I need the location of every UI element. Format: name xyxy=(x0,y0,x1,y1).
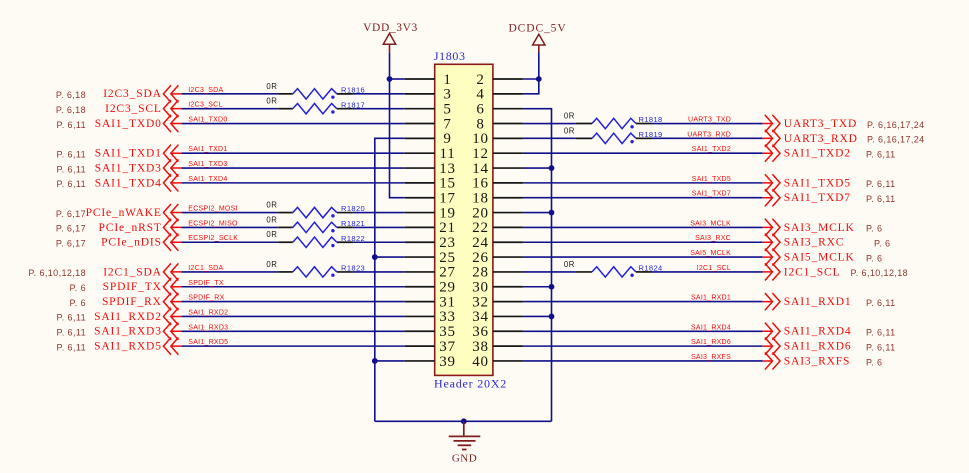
pin leads xyxy=(576,137,592,139)
svg-text:R1820: R1820 xyxy=(341,204,365,213)
wire I2C1_SDA (arrow to R1823) xyxy=(181,271,278,273)
svg-text:R1821: R1821 xyxy=(341,219,365,228)
svg-text:UART3_RXD: UART3_RXD xyxy=(784,133,858,145)
svg-text:PCIe_nRST: PCIe_nRST xyxy=(99,222,162,234)
svg-text:I2C3_SCL: I2C3_SCL xyxy=(188,102,222,109)
svg-text:UART3_TXD: UART3_TXD xyxy=(784,118,857,130)
pin 5 xyxy=(405,101,452,117)
pin 19 xyxy=(405,205,456,221)
svg-text:P. 6,17: P. 6,17 xyxy=(56,209,86,219)
zigzag body xyxy=(293,222,337,232)
svg-text:6: 6 xyxy=(476,101,484,117)
wire SAI3_RXFS xyxy=(523,360,763,362)
svg-text:P. 6: P. 6 xyxy=(866,224,882,234)
off-page connector SAI1_RXD5 (left) xyxy=(163,338,181,355)
off-page connector SAI1_TXD2 (right) xyxy=(763,145,780,162)
svg-text:P. 6,16,17,24: P. 6,16,17,24 xyxy=(867,120,925,130)
wire R1817 to pin 5 xyxy=(353,108,405,110)
off-page connector SAI3_MCLK (right) xyxy=(763,219,780,236)
svg-text:11: 11 xyxy=(439,146,455,162)
zigzag body xyxy=(293,207,337,217)
svg-text:P. 6: P. 6 xyxy=(866,253,882,263)
svg-text:P. 6,11: P. 6,11 xyxy=(57,342,87,352)
svg-text:P. 6: P. 6 xyxy=(70,283,86,293)
connector J1803 body xyxy=(435,64,493,375)
svg-text:17: 17 xyxy=(439,191,456,207)
pin 3 xyxy=(405,87,452,103)
wire SAI1_RXD3 xyxy=(181,330,404,332)
svg-text:SAI3_MCLK: SAI3_MCLK xyxy=(690,220,731,227)
svg-text:GND: GND xyxy=(452,453,477,465)
pin 37 xyxy=(405,339,456,355)
svg-text:0R: 0R xyxy=(266,97,277,106)
wire R1816 to pin 3 xyxy=(353,93,405,95)
svg-text:P. 6,11: P. 6,11 xyxy=(57,120,87,130)
wire pin 20 to GND vertical xyxy=(523,212,552,214)
svg-text:I2C1_SDA: I2C1_SDA xyxy=(188,265,223,272)
svg-text:13: 13 xyxy=(439,161,456,177)
resistor R1823 0R xyxy=(266,260,365,277)
pin 24 xyxy=(472,235,523,251)
svg-text:ECSPI2_MOSI: ECSPI2_MOSI xyxy=(188,206,237,213)
pin 1 marker dot xyxy=(630,125,633,128)
wire SAI1_RXD1 xyxy=(523,301,763,303)
svg-text:SAI1_TXD5: SAI1_TXD5 xyxy=(784,177,851,189)
pin leads xyxy=(576,123,592,125)
svg-text:SAI1_TXD1: SAI1_TXD1 xyxy=(188,146,227,153)
pin 28 xyxy=(472,265,523,281)
svg-text:8: 8 xyxy=(476,116,484,132)
off-page connector PCIe_nWAKE (left) xyxy=(163,204,181,221)
svg-text:P. 6,11: P. 6,11 xyxy=(57,313,87,323)
svg-text:ECSPI2_SCLK: ECSPI2_SCLK xyxy=(188,235,238,242)
pin 36 xyxy=(472,324,523,340)
wire pin 39 to GND vertical xyxy=(375,360,405,362)
power symbol DCDC_5V xyxy=(508,23,566,53)
junction VDD_3V3 / pin 1 xyxy=(387,76,393,82)
pin 20 xyxy=(472,205,523,221)
svg-text:SAI1_RXD3: SAI1_RXD3 xyxy=(94,326,162,338)
svg-text:P. 6,11: P. 6,11 xyxy=(57,179,87,189)
svg-text:R1819: R1819 xyxy=(639,130,663,139)
wire SAI1_TXD2 xyxy=(523,152,763,154)
svg-text:28: 28 xyxy=(472,265,489,281)
pin 6 xyxy=(476,101,523,117)
svg-text:0R: 0R xyxy=(564,260,575,269)
junction pin 14 / GND xyxy=(549,165,555,171)
pin 1 marker dot xyxy=(630,140,633,143)
svg-text:27: 27 xyxy=(439,265,456,281)
svg-text:SAI1_RXD2: SAI1_RXD2 xyxy=(188,309,228,316)
svg-text:20: 20 xyxy=(472,205,489,221)
wire SAI1_TXD4 xyxy=(181,182,404,184)
svg-text:30: 30 xyxy=(472,280,489,296)
pin 1 marker dot xyxy=(630,274,633,277)
zigzag body xyxy=(592,267,636,277)
pin 1 marker dot xyxy=(331,110,334,113)
pin 1 marker dot xyxy=(331,229,334,232)
off-page connector UART3_TXD (right) xyxy=(763,115,780,132)
pin leads xyxy=(278,241,293,243)
pin 31 xyxy=(405,294,456,310)
svg-text:SAI5_MCLK: SAI5_MCLK xyxy=(784,251,855,263)
svg-text:P. 6: P. 6 xyxy=(874,239,890,249)
svg-text:0R: 0R xyxy=(564,112,575,121)
off-page connector SAI1_RXD3 (left) xyxy=(163,323,181,340)
svg-text:SAI1_TXD5: SAI1_TXD5 xyxy=(692,176,731,183)
svg-text:UART3_RXD: UART3_RXD xyxy=(687,131,731,138)
svg-text:P. 6,11: P. 6,11 xyxy=(57,328,87,338)
svg-text:P. 6,11: P. 6,11 xyxy=(866,328,896,338)
svg-text:P. 6,11: P. 6,11 xyxy=(866,150,896,160)
svg-text:P. 6,11: P. 6,11 xyxy=(57,150,87,160)
svg-text:9: 9 xyxy=(443,131,451,147)
svg-text:SAI1_TXD4: SAI1_TXD4 xyxy=(95,177,162,189)
pin 27 xyxy=(405,265,456,281)
off-page connector SAI1_RXD4 (right) xyxy=(763,323,780,340)
pin 1 marker dot xyxy=(331,274,334,277)
svg-text:38: 38 xyxy=(472,339,489,355)
pin 35 xyxy=(405,324,456,340)
off-page connector SAI1_RXD6 (right) xyxy=(763,338,780,355)
svg-text:40: 40 xyxy=(472,354,489,370)
svg-text:12: 12 xyxy=(472,146,489,162)
svg-text:VDD_3V3: VDD_3V3 xyxy=(363,22,418,34)
svg-text:R1822: R1822 xyxy=(341,234,365,243)
wire pin 34 to GND vertical xyxy=(523,315,552,317)
svg-text:2: 2 xyxy=(476,72,484,88)
off-page connector SAI3_RXC (right) xyxy=(763,234,780,251)
svg-text:0R: 0R xyxy=(266,215,277,224)
svg-text:UART3_TXD: UART3_TXD xyxy=(688,117,731,124)
svg-text:SAI1_RXD5: SAI1_RXD5 xyxy=(94,341,162,353)
wire pin 28 to R1824 xyxy=(523,271,576,273)
pin 13 xyxy=(405,161,456,177)
svg-text:Header 20X2: Header 20X2 xyxy=(434,376,507,390)
svg-text:25: 25 xyxy=(439,250,456,266)
svg-text:P. 6,17: P. 6,17 xyxy=(56,239,86,249)
svg-text:SAI3_RXC: SAI3_RXC xyxy=(695,235,731,242)
junction DCDC_5V / pin 2 xyxy=(536,76,542,82)
svg-text:SAI1_RXD1: SAI1_RXD1 xyxy=(784,296,852,308)
wire GND left vertical (pin 9 down) xyxy=(375,138,405,421)
svg-text:18: 18 xyxy=(472,191,489,207)
svg-text:0R: 0R xyxy=(266,201,277,210)
svg-text:33: 33 xyxy=(439,309,456,325)
pin 1 xyxy=(405,72,452,88)
off-page connector SAI1_TXD1 (left) xyxy=(163,145,181,162)
resistor R1817 0R xyxy=(266,97,365,114)
svg-text:I2C3_SDA: I2C3_SDA xyxy=(103,88,162,100)
svg-text:0R: 0R xyxy=(266,260,277,269)
pin 40 xyxy=(472,354,523,370)
wire R1824 to arrow xyxy=(652,271,763,273)
svg-text:SAI1_TXD3: SAI1_TXD3 xyxy=(188,161,227,168)
off-page connector SAI1_RXD2 (left) xyxy=(163,308,181,325)
pin 10 xyxy=(472,131,523,147)
off-page connector SAI1_RXD1 (right) xyxy=(763,293,780,310)
svg-text:16: 16 xyxy=(472,176,489,192)
wire ECSPI2_SCLK (arrow to R1822) xyxy=(181,241,278,243)
svg-text:32: 32 xyxy=(472,294,489,310)
svg-text:P. 6,10,12,18: P. 6,10,12,18 xyxy=(28,268,86,278)
off-page connector SAI1_TXD7 (right) xyxy=(763,189,780,206)
junction pin 20 / GND xyxy=(549,210,555,216)
junction GND tap xyxy=(461,418,467,424)
wire SAI1_TXD0 xyxy=(181,123,404,125)
svg-text:R1824: R1824 xyxy=(639,264,663,273)
junction pin 25 / GND xyxy=(372,254,378,260)
wire SAI3_MCLK xyxy=(523,226,763,228)
power symbol VDD_3V3 xyxy=(363,22,418,52)
svg-text:I2C3_SCL: I2C3_SCL xyxy=(105,103,162,115)
wire pin 10 to R1819 xyxy=(523,137,576,139)
pin 1 marker dot xyxy=(331,244,334,247)
resistor R1822 0R xyxy=(266,230,365,247)
svg-text:ECSPI2_MISO: ECSPI2_MISO xyxy=(188,220,238,227)
svg-text:R1823: R1823 xyxy=(341,264,365,273)
pin 26 xyxy=(472,250,523,266)
off-page connector SAI5_MCLK (right) xyxy=(763,248,780,265)
off-page connector PCIe_nRST (left) xyxy=(163,219,181,236)
svg-text:SAI1_RXD5: SAI1_RXD5 xyxy=(188,339,228,346)
pin leads xyxy=(278,212,293,214)
svg-text:SPDIF_RX: SPDIF_RX xyxy=(102,296,162,308)
svg-text:R1818: R1818 xyxy=(639,115,663,124)
svg-text:I2C3_SDA: I2C3_SDA xyxy=(188,87,223,94)
junction pin 30 / GND xyxy=(549,284,555,290)
svg-text:R1817: R1817 xyxy=(341,100,365,109)
pin 17 xyxy=(405,191,456,207)
svg-text:29: 29 xyxy=(439,280,456,296)
off-page connector I2C3_SDA (left) xyxy=(163,85,181,102)
svg-text:34: 34 xyxy=(472,309,489,325)
junction pin 34 / GND xyxy=(549,314,555,320)
wire R1823 to pin 27 xyxy=(353,271,405,273)
pin 34 xyxy=(472,309,523,325)
svg-text:P. 6,11: P. 6,11 xyxy=(866,342,896,352)
pin 33 xyxy=(405,309,456,325)
junction pin 39 / GND xyxy=(372,358,378,364)
resistor R1819 0R xyxy=(564,126,663,143)
resistor R1824 0R xyxy=(564,260,663,277)
svg-text:36: 36 xyxy=(472,324,489,340)
svg-text:I2C1_SDA: I2C1_SDA xyxy=(103,266,162,278)
svg-text:SAI1_TXD0: SAI1_TXD0 xyxy=(95,118,162,130)
off-page connector SPDIF_TX (left) xyxy=(163,278,181,295)
wire I2C3_SCL (arrow to R1817) xyxy=(181,108,278,110)
svg-text:PCIe_nWAKE: PCIe_nWAKE xyxy=(86,207,162,219)
wire ECSPI2_MISO (arrow to R1821) xyxy=(181,226,278,228)
pin 11 xyxy=(405,146,456,162)
wire pin 25 to GND vertical xyxy=(375,256,405,258)
off-page connector PCIe_nDIS (left) xyxy=(163,234,181,251)
pin 39 xyxy=(405,354,456,370)
pin 32 xyxy=(472,294,523,310)
svg-text:4: 4 xyxy=(476,87,484,103)
svg-text:10: 10 xyxy=(472,131,489,147)
svg-text:7: 7 xyxy=(443,116,451,132)
wire VDD_3V3 stem to pin 1 xyxy=(389,52,391,79)
svg-text:23: 23 xyxy=(439,235,456,251)
svg-text:SAI1_RXD3: SAI1_RXD3 xyxy=(188,324,228,331)
pin leads xyxy=(278,271,293,273)
zigzag body xyxy=(293,89,337,99)
svg-text:J1803: J1803 xyxy=(434,49,466,63)
pin 9 xyxy=(405,131,452,147)
wire SAI3_RXC xyxy=(523,241,763,243)
pin 23 xyxy=(405,235,456,251)
svg-text:P. 6,18: P. 6,18 xyxy=(56,90,86,100)
svg-text:19: 19 xyxy=(439,205,456,221)
svg-text:SAI1_TXD7: SAI1_TXD7 xyxy=(784,192,851,204)
svg-text:SAI5_MCLK: SAI5_MCLK xyxy=(690,250,731,257)
wire pin 30 to GND vertical xyxy=(523,286,552,288)
wire I2C3_SDA (arrow to R1816) xyxy=(181,93,278,95)
resistor R1816 0R xyxy=(266,82,365,99)
svg-text:SAI3_RXFS: SAI3_RXFS xyxy=(691,354,731,361)
pin 16 xyxy=(472,176,523,192)
off-page connector SPDIF_RX (left) xyxy=(163,293,181,310)
svg-text:SAI1_RXD4: SAI1_RXD4 xyxy=(784,326,852,338)
wire R1818 to arrow xyxy=(652,123,763,125)
wire R1819 to arrow xyxy=(652,137,763,139)
wire DCDC_5V stem to pin 2 xyxy=(538,53,540,80)
svg-text:P. 6,10,12,18: P. 6,10,12,18 xyxy=(851,268,909,278)
wire DCDC_5V down to pin 4 xyxy=(523,79,539,94)
wire pin 1 branch xyxy=(390,78,405,80)
off-page connector SAI1_TXD3 (left) xyxy=(163,159,181,176)
wire pin 2 branch xyxy=(523,78,539,80)
wire VDD_3V3 down to pin 17 xyxy=(390,79,405,198)
svg-text:5: 5 xyxy=(443,101,451,117)
svg-text:DCDC_5V: DCDC_5V xyxy=(508,23,566,35)
wire SAI1_RXD5 xyxy=(181,345,404,347)
pin 1 marker dot xyxy=(331,214,334,217)
svg-text:P. 6,11: P. 6,11 xyxy=(866,298,896,308)
off-page connector SAI3_RXFS (right) xyxy=(763,352,780,369)
svg-text:0R: 0R xyxy=(564,126,575,135)
resistor R1820 0R xyxy=(266,201,365,218)
svg-text:39: 39 xyxy=(439,354,456,370)
pin 38 xyxy=(472,339,523,355)
svg-text:P. 6: P. 6 xyxy=(866,357,882,367)
off-page connector SAI1_TXD5 (right) xyxy=(763,174,780,191)
svg-text:0R: 0R xyxy=(266,82,277,91)
svg-text:P. 6,11: P. 6,11 xyxy=(866,194,896,204)
wire ECSPI2_MOSI (arrow to R1820) xyxy=(181,212,278,214)
resistor R1821 0R xyxy=(266,215,365,232)
svg-text:SAI3_RXFS: SAI3_RXFS xyxy=(784,355,850,367)
svg-text:I2C1_SCL: I2C1_SCL xyxy=(784,266,841,278)
svg-text:SAI3_RXC: SAI3_RXC xyxy=(784,237,844,249)
zigzag body xyxy=(293,103,337,113)
wire pin 14 to GND vertical xyxy=(523,167,552,169)
wire SAI1_TXD3 xyxy=(181,167,404,169)
svg-text:SAI3_MCLK: SAI3_MCLK xyxy=(784,222,855,234)
zigzag body xyxy=(592,133,636,143)
pin 25 xyxy=(405,250,456,266)
pin 21 xyxy=(405,220,456,236)
pin leads xyxy=(278,226,293,228)
svg-text:3: 3 xyxy=(443,87,451,103)
svg-text:15: 15 xyxy=(439,176,456,192)
wire SAI5_MCLK xyxy=(523,256,763,258)
wire SAI1_RXD4 xyxy=(523,330,763,332)
svg-text:SPDIF_RX: SPDIF_RX xyxy=(188,295,224,302)
pin 4 xyxy=(476,87,523,103)
pin 7 xyxy=(405,116,452,132)
off-page connector I2C3_SCL (left) xyxy=(163,100,181,117)
svg-text:P. 6,17: P. 6,17 xyxy=(56,224,86,234)
wire R1821 to pin 21 xyxy=(353,226,405,228)
svg-text:P. 6,11: P. 6,11 xyxy=(866,179,896,189)
svg-text:P. 6,16,17,24: P. 6,16,17,24 xyxy=(867,135,925,145)
svg-text:SAI1_RXD1: SAI1_RXD1 xyxy=(691,295,731,302)
svg-text:14: 14 xyxy=(472,161,489,177)
svg-text:SPDIF_TX: SPDIF_TX xyxy=(103,281,162,293)
pin 22 xyxy=(472,220,523,236)
pin leads xyxy=(278,93,293,95)
svg-text:R1816: R1816 xyxy=(341,85,365,94)
pin 30 xyxy=(472,280,523,296)
svg-text:26: 26 xyxy=(472,250,489,266)
svg-text:SAI1_TXD2: SAI1_TXD2 xyxy=(692,146,731,153)
svg-text:SPDIF_TX: SPDIF_TX xyxy=(188,280,224,287)
svg-text:35: 35 xyxy=(439,324,456,340)
wire GND bottom rail xyxy=(375,420,552,422)
off-page connector I2C1_SDA (left) xyxy=(163,263,181,280)
svg-text:P. 6,18: P. 6,18 xyxy=(56,105,86,115)
ground symbol GND xyxy=(449,421,481,464)
pin 12 xyxy=(472,146,523,162)
svg-text:PCIe_nDIS: PCIe_nDIS xyxy=(101,237,162,249)
wire SAI1_RXD6 xyxy=(523,345,763,347)
pin 14 xyxy=(472,161,523,177)
pin leads xyxy=(576,271,592,273)
svg-text:SAI1_TXD4: SAI1_TXD4 xyxy=(188,176,227,183)
wire SAI1_TXD1 xyxy=(181,152,404,154)
svg-text:1: 1 xyxy=(443,72,451,88)
svg-text:24: 24 xyxy=(472,235,489,251)
wire GND right vertical (pin 6 down) xyxy=(523,109,552,422)
svg-text:SAI1_RXD2: SAI1_RXD2 xyxy=(94,311,162,323)
off-page connector SAI1_TXD4 (left) xyxy=(163,174,181,191)
wire SAI1_RXD2 xyxy=(181,315,404,317)
svg-text:SAI1_RXD6: SAI1_RXD6 xyxy=(784,341,852,353)
off-page connector I2C1_SCL (right) xyxy=(763,263,780,280)
wire SPDIF_RX xyxy=(181,301,404,303)
svg-text:0R: 0R xyxy=(266,230,277,239)
off-page connector UART3_RXD (right) xyxy=(763,130,780,147)
pin 2 xyxy=(476,72,523,88)
svg-text:21: 21 xyxy=(439,220,456,236)
wire SPDIF_TX xyxy=(181,286,404,288)
pin 1 marker dot xyxy=(331,95,334,98)
pin leads xyxy=(278,108,293,110)
wire R1820 to pin 19 xyxy=(353,212,405,214)
svg-text:SAI1_RXD6: SAI1_RXD6 xyxy=(691,339,731,346)
wire SAI1_TXD5 xyxy=(523,182,763,184)
off-page connector SAI1_TXD0 (left) xyxy=(163,115,181,132)
resistor R1818 0R xyxy=(564,112,663,129)
svg-text:SAI1_TXD0: SAI1_TXD0 xyxy=(188,117,227,124)
wire R1822 to pin 23 xyxy=(353,241,405,243)
svg-text:P. 6,11: P. 6,11 xyxy=(57,164,87,174)
pin 29 xyxy=(405,280,456,296)
pin 18 xyxy=(472,191,523,207)
svg-text:SAI1_TXD1: SAI1_TXD1 xyxy=(95,148,162,160)
